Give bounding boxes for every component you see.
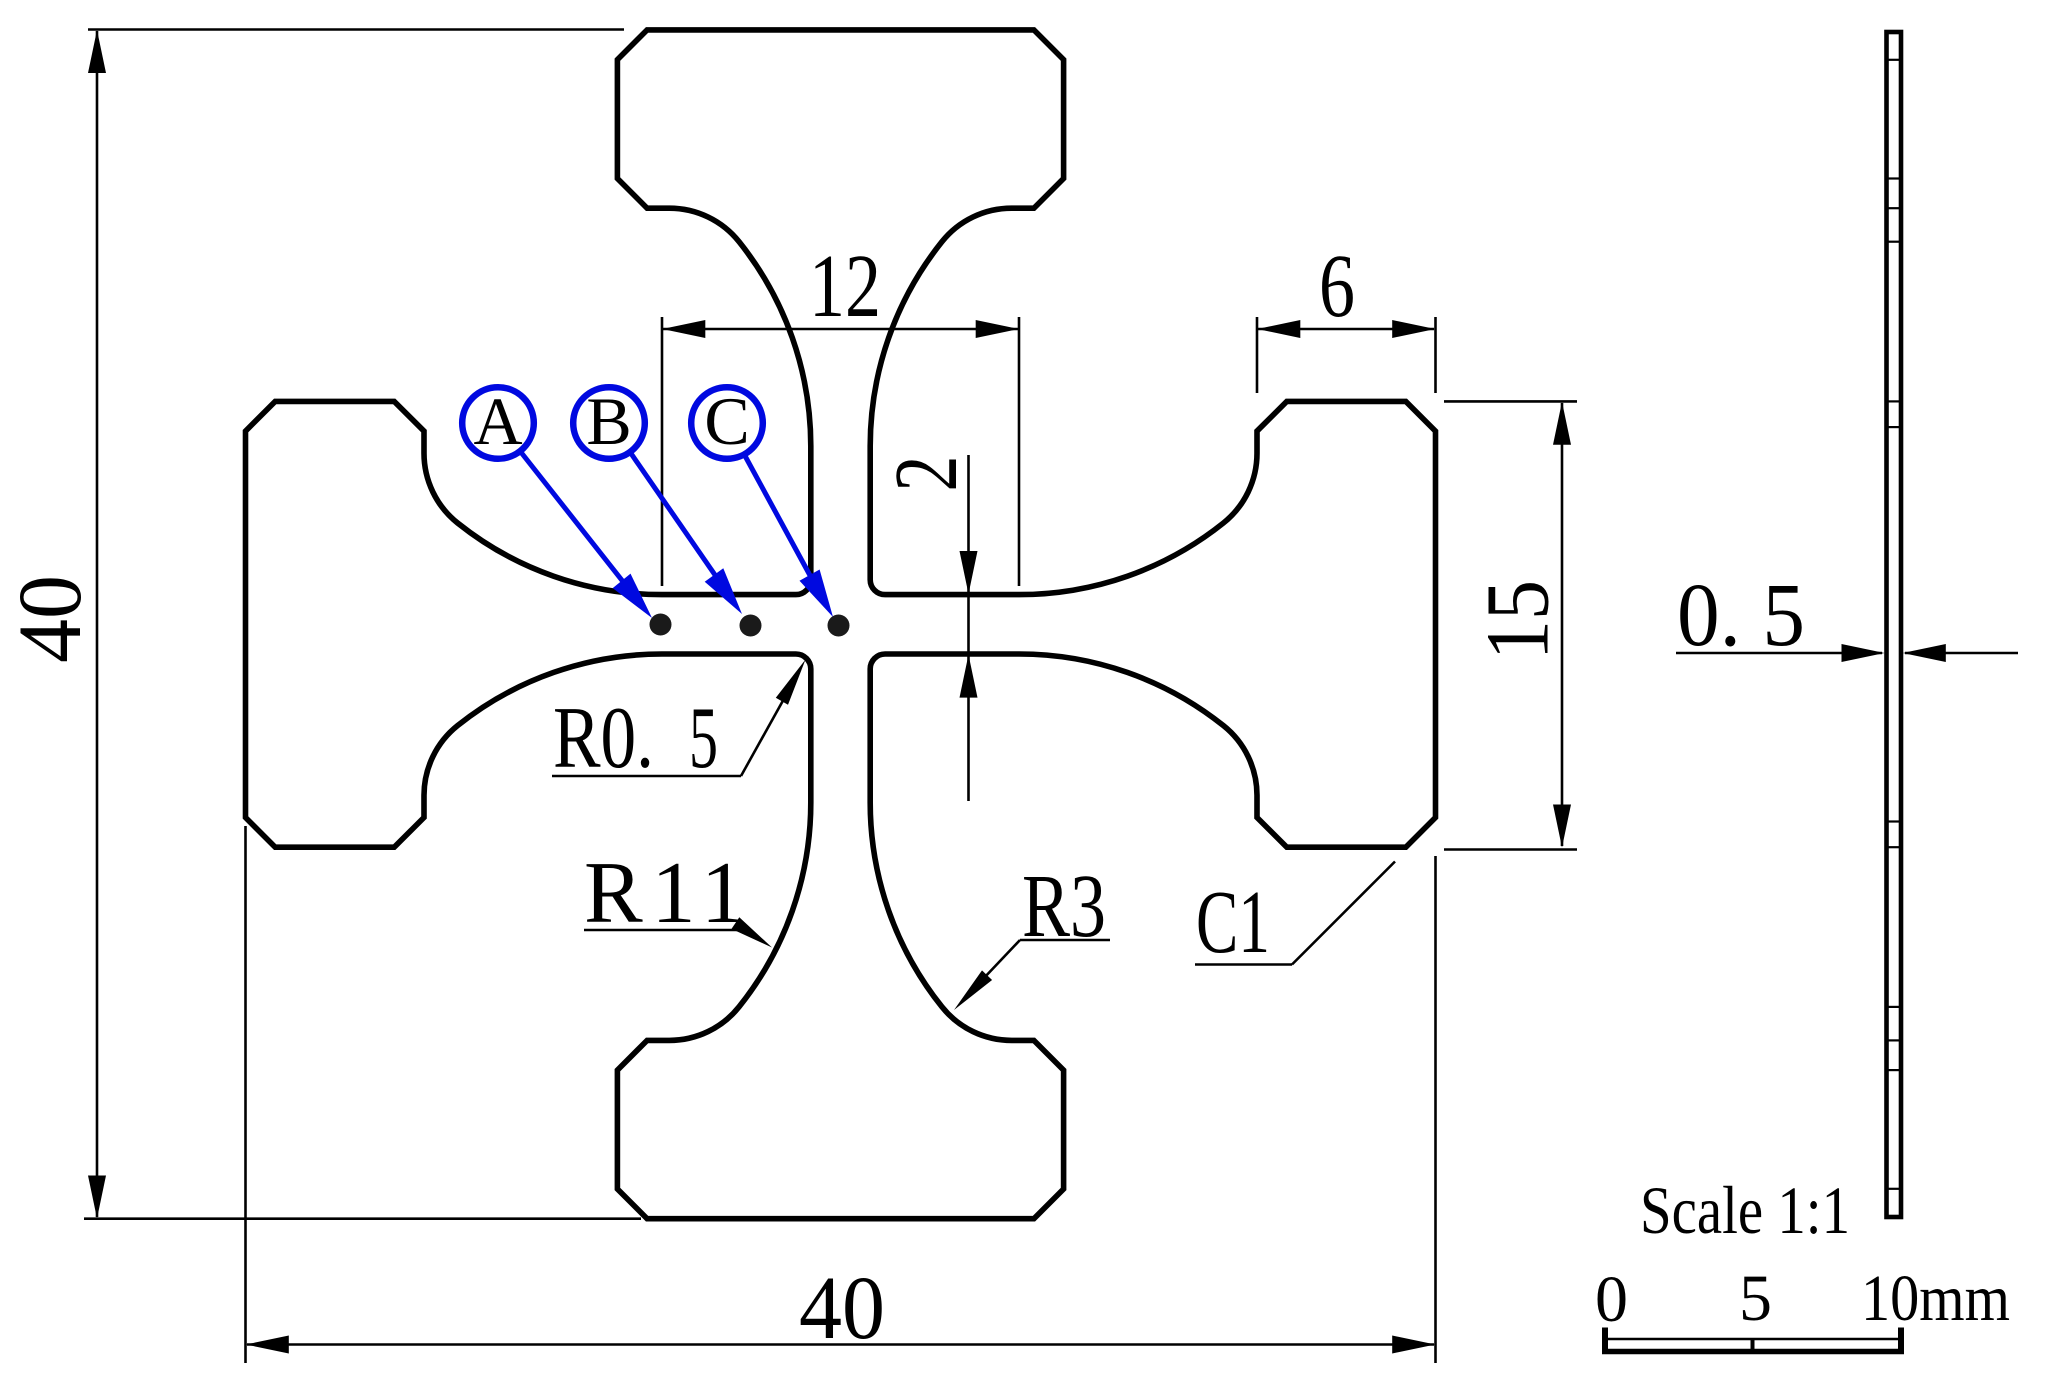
dimension 12: extension line right bbox=[1018, 317, 1021, 586]
leader C1: leader line bbox=[1292, 862, 1395, 965]
dimension 0.5 thickness: right arrow line bbox=[1905, 652, 2018, 655]
svg-text:5: 5 bbox=[1739, 1262, 1772, 1335]
scale bar: middle tick bbox=[1751, 1338, 1755, 1352]
side view edge ticks bbox=[1887, 59, 1902, 61]
label B: leader arrow bbox=[630, 452, 733, 601]
svg-text:10mm: 10mm bbox=[1861, 1262, 2010, 1335]
dimension 12: extension line left bbox=[661, 317, 664, 586]
dimension 2: lower arrow bbox=[960, 655, 978, 698]
dimension 12: dimension line bbox=[663, 328, 1018, 331]
label B: circle bbox=[573, 387, 645, 459]
dimension 6: dimension line bbox=[1258, 328, 1434, 331]
point marker dot B bbox=[740, 615, 762, 637]
scale bar: left end cap bbox=[1602, 1328, 1608, 1353]
svg-text:Scale 1:1: Scale 1:1 bbox=[1640, 1172, 1850, 1248]
svg-text:A: A bbox=[473, 383, 522, 459]
svg-text:15: 15 bbox=[1469, 580, 1568, 660]
label A: leader arrow bbox=[520, 451, 643, 607]
scale bar: right end cap bbox=[1898, 1328, 1904, 1353]
svg-text:R0.: R0. bbox=[553, 690, 654, 787]
leader R11: leader line and arrow bbox=[746, 930, 764, 942]
leader R3: underline bbox=[1020, 939, 1110, 942]
dimension 40 vertical: extension line bottom bbox=[84, 1217, 641, 1220]
leader C1: underline bbox=[1195, 963, 1292, 966]
svg-text:40: 40 bbox=[1, 575, 100, 663]
label A: circle bbox=[462, 387, 534, 459]
point marker dot A bbox=[650, 614, 672, 636]
svg-text:0. 5: 0. 5 bbox=[1677, 566, 1805, 665]
leader R0.5: leader line and arrow bbox=[741, 670, 800, 776]
dimension 40 horizontal: dimension line bbox=[247, 1343, 1434, 1346]
svg-text:B: B bbox=[586, 383, 631, 459]
dimension 15: extension line top bbox=[1444, 400, 1577, 403]
dimension 2: upper arrow line bbox=[967, 455, 970, 801]
scale bar: bottom bar bbox=[1602, 1349, 1904, 1355]
leader R11: underline bbox=[584, 929, 746, 932]
svg-text:R11: R11 bbox=[584, 845, 745, 942]
svg-text:0: 0 bbox=[1595, 1263, 1628, 1336]
dimension 15: dimension line bbox=[1561, 403, 1564, 846]
svg-text:5: 5 bbox=[689, 690, 718, 787]
dimension 0.5 thickness: left arrow line bbox=[1676, 652, 1882, 655]
dimension 15: extension line bottom bbox=[1444, 848, 1577, 851]
leader R3: leader line and arrow bbox=[965, 940, 1020, 998]
side view: 0.5 mm thick sheet profile bbox=[1887, 32, 1902, 1217]
dimension 6: extension line left bbox=[1256, 317, 1259, 393]
dimension 40 horizontal: extension line right bbox=[1434, 856, 1437, 1363]
dimension 40 vertical: extension line top bbox=[88, 28, 624, 31]
svg-text:2: 2 bbox=[877, 456, 976, 492]
svg-text:40: 40 bbox=[799, 1259, 885, 1358]
label C: leader arrow bbox=[744, 454, 825, 603]
dimension 40 horizontal: extension line left bbox=[244, 826, 247, 1363]
svg-text:C: C bbox=[704, 383, 749, 459]
dimension 6: extension line right bbox=[1434, 317, 1437, 393]
dimension 40 vertical: dimension line bbox=[96, 31, 99, 1217]
label C: circle bbox=[691, 387, 763, 459]
svg-text:6: 6 bbox=[1319, 237, 1355, 336]
scale bar: top thin line bbox=[1605, 1338, 1901, 1340]
svg-text:12: 12 bbox=[809, 237, 881, 336]
leader R0.5: underline bbox=[552, 775, 741, 778]
point marker dot C bbox=[828, 615, 850, 637]
svg-text:C1: C1 bbox=[1196, 873, 1270, 972]
cruciform specimen outline (front view) bbox=[246, 30, 1436, 1219]
